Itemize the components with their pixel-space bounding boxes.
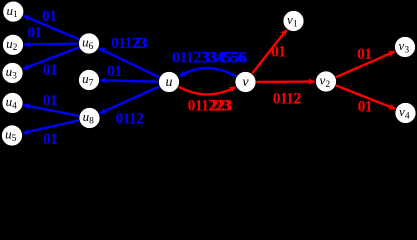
edge u to u6 <box>99 48 169 82</box>
edge v2 to v4 <box>326 82 395 109</box>
svg-text:23: 23 <box>133 35 148 52</box>
edge u to u7 <box>100 80 169 82</box>
svg-text:2: 2 <box>294 90 302 107</box>
edge u6 to u1 <box>24 16 89 44</box>
node u4 <box>2 93 23 114</box>
node u <box>159 72 180 93</box>
node u3 <box>2 63 23 84</box>
node u7 <box>79 70 100 91</box>
svg-text:u: u <box>166 75 173 90</box>
edge u to v (bottom curve) <box>179 87 236 95</box>
svg-text:01: 01 <box>42 8 56 25</box>
edge u8 to u4 <box>24 105 90 118</box>
edge v to v2 <box>246 80 315 83</box>
svg-text:01: 01 <box>357 46 371 63</box>
node v <box>235 72 256 93</box>
svg-text:01: 01 <box>43 62 57 79</box>
node v4 <box>395 103 416 124</box>
edge v2 to v3 <box>326 52 395 82</box>
svg-text:01: 01 <box>107 63 121 80</box>
node u6 <box>79 33 100 54</box>
node v2 <box>316 71 337 92</box>
edge v to u (top curve) <box>180 68 237 76</box>
svg-text:v: v <box>242 75 249 90</box>
node u2 <box>3 34 24 55</box>
edge u6 to u2 <box>24 44 89 45</box>
node u5 <box>2 125 23 146</box>
svg-text:01: 01 <box>43 93 57 110</box>
svg-text:223: 223 <box>210 98 232 115</box>
svg-text:0112: 0112 <box>116 110 145 127</box>
node u8 <box>79 108 100 129</box>
svg-text:01: 01 <box>358 99 372 116</box>
edge v to v1 <box>246 30 287 82</box>
svg-text:334556: 334556 <box>202 50 247 67</box>
svg-text:01: 01 <box>271 43 285 60</box>
node v1 <box>283 11 304 32</box>
edge u to u8 <box>100 82 169 113</box>
node v3 <box>395 37 416 58</box>
edge u6 to u3 <box>23 44 89 69</box>
svg-text:01: 01 <box>27 25 41 42</box>
edge u8 to u5 <box>23 118 90 133</box>
node u1 <box>3 1 24 22</box>
svg-text:01: 01 <box>43 131 57 148</box>
